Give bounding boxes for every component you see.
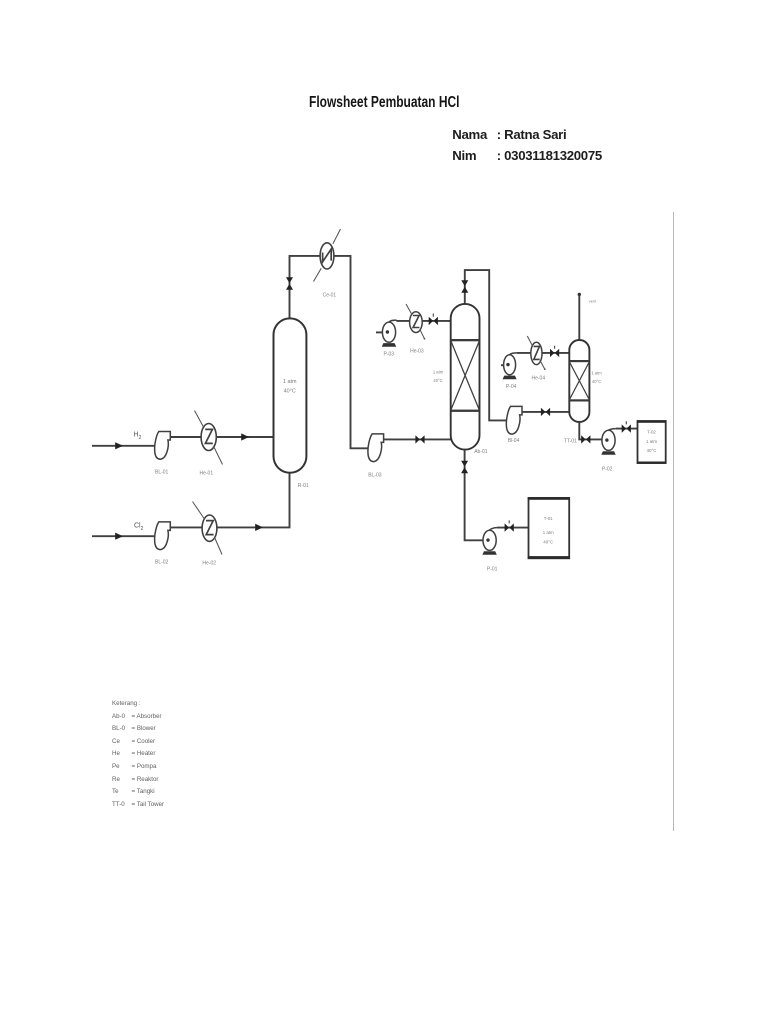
svg-text:1 atm: 1 atm: [646, 439, 657, 444]
svg-text:P-03: P-03: [384, 352, 395, 358]
absorber condition text: [433, 370, 444, 383]
reactor condition text: [283, 379, 297, 395]
wire P-03 to absorber top inlet: [396, 320, 450, 322]
page divider line: [673, 212, 674, 831]
title: [309, 94, 459, 112]
legend: [112, 698, 164, 811]
wire Cl2 feed: [92, 535, 155, 537]
svg-text:He-04: He-04: [532, 376, 546, 382]
wire P-04 to tail tower top inlet: [517, 352, 569, 354]
blower Bl-04: [506, 406, 522, 434]
arrow before reactor: [241, 433, 249, 440]
tail tower TT-01: [569, 340, 589, 422]
svg-text:BL-03: BL-03: [368, 472, 382, 478]
valve on reactor top line: [286, 277, 293, 290]
absorber Ab-01: [451, 304, 480, 450]
svg-text:P-04: P-04: [506, 384, 517, 390]
heater He-01: [195, 411, 223, 465]
svg-text:1 atm: 1 atm: [433, 370, 444, 375]
pump P-02: [601, 429, 616, 455]
valve on P-01 line: [505, 520, 514, 531]
wire tail tower vent: [578, 295, 580, 340]
svg-text:40°C: 40°C: [433, 378, 442, 383]
wire tail tower bottom to pump P-02: [579, 422, 602, 439]
wire H2 feed: [92, 445, 155, 447]
wire BL-02 to reactor bottom: [170, 473, 289, 528]
arrow on H2 feed: [115, 442, 123, 449]
svg-text:Ab-01: Ab-01: [474, 449, 488, 455]
svg-text:1 atm: 1 atm: [283, 379, 297, 385]
tank T-01: [528, 497, 570, 558]
valve on Bl-04 line: [541, 408, 550, 416]
tail tower packing section: [570, 360, 590, 402]
svg-text:T-01: T-01: [544, 516, 553, 521]
svg-text:He-02: He-02: [202, 561, 216, 567]
svg-text:Bl-04: Bl-04: [508, 438, 520, 444]
heater He-04: [527, 336, 545, 370]
wire absorber top vent loop: [465, 270, 506, 420]
svg-text:40°C: 40°C: [647, 448, 657, 453]
svg-text:P-01: P-01: [487, 566, 498, 572]
cooler Ce-01: [314, 229, 341, 282]
svg-text:H2: H2: [134, 432, 142, 442]
wire BL-01 to reactor: [170, 436, 273, 438]
svg-text:BL-02: BL-02: [155, 560, 169, 566]
svg-text:Ce-01: Ce-01: [323, 293, 337, 299]
svg-text:40°C: 40°C: [284, 388, 296, 394]
svg-text:vent: vent: [589, 299, 597, 304]
tail tower condition text: [591, 371, 602, 384]
heater He-02: [193, 502, 223, 555]
wire P-01 to tank T-01: [497, 527, 529, 529]
wire BL-03 to absorber: [384, 438, 451, 440]
svg-text:He-01: He-01: [200, 471, 214, 477]
name block: [452, 127, 566, 142]
svg-text:40°C: 40°C: [543, 540, 553, 545]
tank T-02: [637, 420, 666, 464]
valve on BL-03 line: [415, 435, 424, 443]
pump P-03: [376, 320, 397, 347]
blower BL-03: [368, 434, 384, 462]
svg-text:T-02: T-02: [647, 430, 656, 435]
valve on absorber top line: [461, 280, 468, 293]
valve on P-02 line: [622, 421, 631, 433]
valve on TT bottom line: [581, 435, 590, 443]
wire P-02 to tank T-02: [616, 428, 638, 430]
svg-text:He-03: He-03: [410, 348, 424, 354]
blower BL-01: [155, 432, 171, 460]
blower BL-02: [155, 522, 171, 550]
wire Bl-04 to tail tower: [522, 411, 569, 413]
pump P-01: [482, 528, 497, 555]
valve on absorber bottom line: [461, 461, 468, 474]
heater He-03: [406, 304, 425, 340]
absorber packing section: [451, 339, 479, 412]
svg-text:1 atm: 1 atm: [543, 530, 554, 535]
svg-text:Cl2: Cl2: [134, 523, 144, 533]
wire absorber bottom to pump P-01: [465, 450, 483, 541]
vent tip: [578, 293, 581, 296]
svg-text:BL-01: BL-01: [155, 470, 169, 476]
arrow on Cl2 feed: [115, 533, 123, 540]
pump P-04: [501, 353, 517, 379]
arrow on Cl2 line: [255, 524, 263, 531]
svg-text:R-01: R-01: [298, 483, 309, 489]
svg-text:1 atm: 1 atm: [591, 371, 602, 376]
svg-text:TT-01: TT-01: [564, 439, 577, 445]
svg-text:P-02: P-02: [602, 467, 613, 473]
svg-text:40°C: 40°C: [592, 379, 601, 384]
valve on He-03 line: [429, 314, 438, 326]
reactor R-01: [274, 318, 307, 472]
wire reactor top to cooler to down-leg: [290, 256, 368, 448]
valve on He-04 line: [550, 346, 559, 357]
